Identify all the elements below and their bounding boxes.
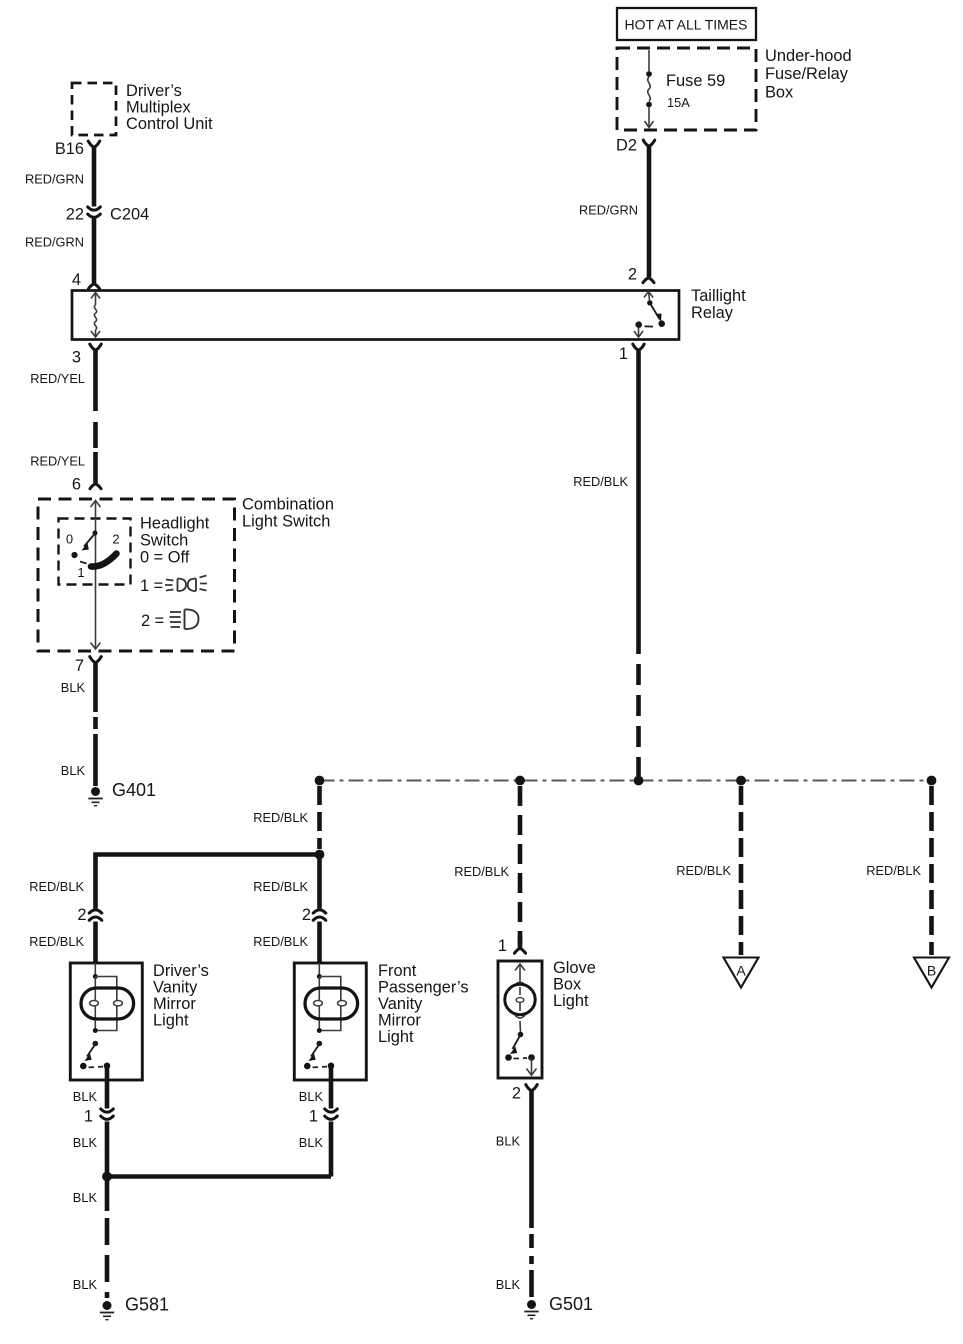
wire RED/BLK bus to connector B bbox=[929, 786, 934, 955]
pin 2 glove box light bbox=[512, 1085, 537, 1103]
svg-text:BLK: BLK bbox=[73, 1089, 98, 1104]
junction node A feed bbox=[736, 776, 746, 786]
svg-text:1: 1 bbox=[498, 937, 507, 955]
taillight relay box bbox=[72, 291, 679, 340]
svg-text:G501: G501 bbox=[549, 1294, 593, 1314]
svg-text:6: 6 bbox=[72, 476, 81, 494]
junction node vanity feed bbox=[315, 776, 325, 786]
svg-text:2: 2 bbox=[512, 1085, 521, 1103]
svg-text:BLK: BLK bbox=[299, 1089, 324, 1104]
switch pivot and arm bbox=[71, 531, 97, 564]
svg-text:BLK: BLK bbox=[299, 1135, 324, 1150]
pin 1 of relay bbox=[619, 344, 644, 363]
svg-text:RED/YEL: RED/YEL bbox=[30, 454, 85, 469]
connector C204 bbox=[66, 206, 149, 224]
svg-text:CombinationLight Switch: CombinationLight Switch bbox=[242, 496, 334, 531]
svg-text:Driver’sMultiplexControl Unit: Driver’sMultiplexControl Unit bbox=[126, 82, 213, 133]
svg-text:Under-hoodFuse/RelayBox: Under-hoodFuse/RelayBox bbox=[765, 47, 852, 101]
svg-text:RED/BLK: RED/BLK bbox=[454, 864, 509, 879]
wire RED/BLK down to passenger vanity bbox=[317, 855, 322, 964]
svg-text:BLK: BLK bbox=[61, 763, 86, 778]
pin 1 glove box light bbox=[498, 936, 526, 955]
wire RED/BLK bus to connector A bbox=[739, 786, 744, 955]
pin 3 of relay bbox=[72, 344, 101, 366]
driver's vanity light internals bbox=[80, 963, 134, 1069]
relay coil bbox=[91, 293, 100, 338]
connector 1 passenger vanity bbox=[309, 1108, 337, 1126]
svg-text:3: 3 bbox=[72, 349, 81, 367]
fuse 59 element bbox=[645, 50, 654, 128]
svg-text:Fuse 59: Fuse 59 bbox=[666, 72, 725, 90]
label box HOT AT ALL TIMES bbox=[617, 8, 756, 40]
svg-text:BLK: BLK bbox=[496, 1134, 521, 1149]
svg-text:B16: B16 bbox=[55, 140, 84, 158]
driver's multiplex control unit box (dashed) bbox=[72, 83, 116, 135]
switch position labels 0 2 1 bbox=[66, 532, 120, 581]
wire BLK pin7 to G401 bbox=[93, 663, 98, 786]
svg-text:Driver’sVanityMirrorLight: Driver’sVanityMirrorLight bbox=[153, 962, 209, 1030]
svg-text:BLK: BLK bbox=[61, 680, 86, 695]
wire RED/BLK bus to glove box light bbox=[518, 786, 523, 944]
svg-text:2 =: 2 = bbox=[141, 612, 164, 630]
glove box light internals bbox=[505, 964, 537, 1075]
bus wire dash-dot RED/BLK bbox=[320, 780, 932, 782]
svg-text:HeadlightSwitch0 = Off: HeadlightSwitch0 = Off bbox=[140, 515, 210, 567]
driver's vanity mirror light box bbox=[70, 963, 142, 1080]
svg-text:RED/BLK: RED/BLK bbox=[866, 863, 921, 878]
svg-text:TaillightRelay: TaillightRelay bbox=[691, 287, 746, 322]
svg-text:A: A bbox=[736, 963, 746, 979]
svg-text:2: 2 bbox=[77, 906, 86, 924]
svg-text:G581: G581 bbox=[125, 1295, 169, 1315]
svg-text:RED/GRN: RED/GRN bbox=[25, 235, 84, 250]
wire RED/GRN B16 to C204 bbox=[92, 148, 97, 207]
junction node at relay wire / bus bbox=[634, 776, 644, 786]
junction node glove feed bbox=[515, 776, 525, 786]
svg-text:RED/GRN: RED/GRN bbox=[579, 203, 638, 218]
wire RED/GRN fuse to relay pin 2 bbox=[647, 147, 652, 278]
svg-text:G401: G401 bbox=[112, 780, 156, 800]
svg-text:2: 2 bbox=[628, 266, 637, 284]
connector 1 driver's vanity bbox=[84, 1108, 113, 1126]
junction node vanity grounds bbox=[102, 1172, 112, 1182]
ground G401 bbox=[88, 780, 156, 806]
svg-text:2: 2 bbox=[302, 906, 311, 924]
svg-text:RED/BLK: RED/BLK bbox=[29, 879, 84, 894]
svg-text:22: 22 bbox=[66, 206, 84, 224]
wire BLK junction to G581 bbox=[105, 1177, 110, 1299]
svg-text:7: 7 bbox=[75, 657, 84, 675]
wire BLK joining both vanity lights bbox=[107, 1174, 331, 1179]
junction node vanity split bbox=[315, 850, 325, 860]
ground G581 bbox=[100, 1295, 169, 1320]
svg-text:GloveBoxLight: GloveBoxLight bbox=[553, 959, 596, 1010]
passenger vanity light internals bbox=[304, 963, 358, 1069]
wire RED/BLK relay pin1 down to bus bbox=[636, 351, 641, 777]
passenger vanity mirror light box bbox=[294, 963, 366, 1080]
wire BLK glove box to G501 bbox=[529, 1091, 534, 1297]
connector 2 passenger vanity bbox=[302, 906, 326, 924]
wire RED/GRN C204 to relay pin 4 bbox=[92, 218, 97, 284]
svg-text:15A: 15A bbox=[667, 95, 690, 110]
pin 2 of relay bbox=[628, 266, 654, 284]
pin 4 of relay bbox=[72, 271, 100, 289]
pin B16 connector bbox=[55, 140, 100, 158]
svg-text:BLK: BLK bbox=[496, 1277, 521, 1292]
svg-text:HOT AT ALL TIMES: HOT AT ALL TIMES bbox=[625, 17, 748, 33]
svg-text:RED/GRN: RED/GRN bbox=[25, 172, 84, 187]
svg-text:RED/BLK: RED/BLK bbox=[676, 863, 731, 878]
headlight switch inner box (dashed) bbox=[59, 519, 131, 585]
junction node B feed bbox=[927, 776, 937, 786]
connector A triangle bbox=[724, 958, 759, 988]
svg-text:RED/BLK: RED/BLK bbox=[29, 934, 84, 949]
connector 2 driver's vanity bbox=[77, 906, 101, 924]
wire RED/YEL relay pin3 to switch pin6 bbox=[93, 351, 98, 484]
svg-text:RED/BLK: RED/BLK bbox=[573, 474, 628, 489]
under-hood fuse/relay box (dashed) bbox=[617, 48, 756, 130]
svg-text:B: B bbox=[927, 963, 936, 979]
svg-text:4: 4 bbox=[72, 271, 81, 289]
svg-text:D2: D2 bbox=[616, 137, 637, 155]
svg-text:1: 1 bbox=[84, 1108, 93, 1126]
svg-text:RED/BLK: RED/BLK bbox=[253, 879, 308, 894]
svg-text:1 =: 1 = bbox=[140, 577, 163, 595]
wire BLK driver's vanity exit bbox=[105, 1067, 110, 1177]
svg-text:RED/BLK: RED/BLK bbox=[253, 810, 308, 825]
svg-text:FrontPassenger’sVanityMirrorLi: FrontPassenger’sVanityMirrorLight bbox=[378, 962, 469, 1046]
wire BLK passenger vanity exit bbox=[329, 1067, 334, 1177]
svg-text:1: 1 bbox=[309, 1108, 318, 1126]
legend 2 = low beam icon bbox=[141, 609, 199, 630]
svg-text:1: 1 bbox=[77, 565, 84, 580]
pin D2 connector bbox=[616, 137, 655, 155]
svg-text:RED/BLK: RED/BLK bbox=[253, 934, 308, 949]
ground G501 bbox=[524, 1294, 593, 1319]
svg-text:BLK: BLK bbox=[73, 1135, 98, 1150]
pin 6 of combination switch bbox=[72, 476, 101, 494]
pin 7 of combination switch bbox=[75, 657, 101, 675]
combination light switch outer box (dashed) bbox=[38, 499, 235, 651]
wire RED/BLK bus down to vanity split junction bbox=[317, 786, 322, 849]
svg-text:BLK: BLK bbox=[73, 1190, 98, 1205]
svg-text:2: 2 bbox=[112, 532, 119, 547]
relay switch contacts bbox=[634, 292, 665, 338]
connector B triangle bbox=[914, 958, 949, 988]
svg-text:C204: C204 bbox=[110, 206, 149, 224]
glove box light box bbox=[498, 961, 542, 1078]
svg-text:0: 0 bbox=[66, 532, 73, 547]
svg-text:BLK: BLK bbox=[73, 1277, 98, 1292]
switch position arc wiper bbox=[91, 554, 117, 567]
svg-text:1: 1 bbox=[619, 345, 628, 363]
wire RED/BLK horizontal to driver's vanity bbox=[96, 855, 320, 964]
svg-text:RED/YEL: RED/YEL bbox=[30, 371, 85, 386]
legend 1 = parking lamps icon bbox=[140, 576, 207, 596]
switch wire vertical bbox=[91, 501, 101, 650]
